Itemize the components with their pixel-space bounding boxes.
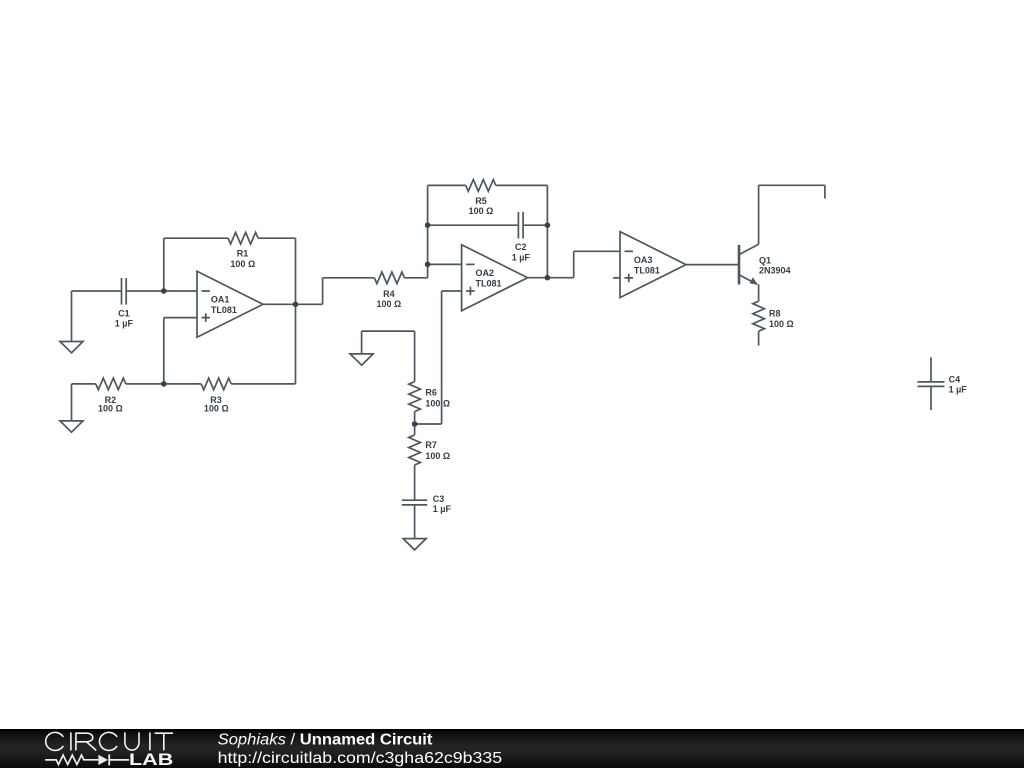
label R8 [769, 309, 794, 330]
wire feedback right vertical lower [295, 304, 297, 384]
wire C4 bottom stub [930, 387, 932, 410]
wire input to C1 [72, 290, 122, 292]
svg-text:OA2: OA2 [476, 268, 495, 278]
node F [545, 222, 551, 228]
svg-text:100 Ω: 100 Ω [425, 399, 450, 409]
wire C3 to ground [414, 506, 416, 539]
label OA3 [634, 255, 660, 276]
svg-text:100 Ω: 100 Ω [425, 451, 450, 461]
node G [545, 275, 551, 281]
wire C2 left lead [428, 224, 518, 226]
svg-text:http://circuitlab.com/c3gha62c: http://circuitlab.com/c3gha62c9b335 [218, 749, 503, 767]
op-amp U OA3 [620, 232, 686, 298]
label Q1 [759, 256, 791, 276]
svg-text:R4: R4 [383, 289, 395, 299]
capacitor C3 [402, 500, 427, 505]
wire R2 left down to ground [71, 384, 73, 421]
label OA1 [211, 294, 237, 315]
label R7 [425, 440, 450, 461]
ground G1 [60, 342, 83, 353]
wire collector top horizontal [759, 184, 825, 186]
wire ground branch top [362, 330, 415, 332]
wire loop left vertical [427, 185, 429, 264]
label R2 [98, 395, 123, 414]
svg-text:TL081: TL081 [211, 305, 237, 315]
wire Q1 collector up [758, 185, 760, 244]
wire ground branch down [361, 331, 363, 354]
svg-text:R8: R8 [769, 309, 781, 319]
capacitor C1 [122, 278, 127, 305]
node D [425, 222, 431, 228]
svg-text:R6: R6 [425, 388, 437, 398]
svg-text:100 Ω: 100 Ω [230, 259, 255, 269]
svg-text:R1: R1 [237, 249, 249, 259]
label R1 [230, 249, 255, 269]
wire OA3 output to Q1 base [686, 264, 739, 266]
capacitor C2 [518, 212, 523, 239]
label C4 [949, 375, 968, 395]
node A [161, 288, 167, 294]
wire C4 top stub [930, 357, 932, 381]
wire output step up [322, 278, 324, 305]
logo CIRCUIT letters [46, 732, 173, 750]
svg-text:100 Ω: 100 Ω [469, 206, 494, 216]
wire feedback left vertical [163, 238, 165, 291]
footer bar [0, 729, 1024, 768]
wire R4 up to minus node [427, 264, 429, 277]
ground G4 [403, 539, 426, 550]
wire R7 to C3 [414, 465, 416, 500]
wire output step up to OA3 [573, 251, 575, 277]
node B [161, 381, 167, 387]
op-amp U OA1 [197, 271, 263, 337]
svg-text:2N3904: 2N3904 [759, 266, 791, 276]
wire top right stub [824, 185, 826, 198]
wire OA2 output [528, 277, 574, 279]
wire plus down vertical [441, 291, 443, 424]
wire OA1 plus input [164, 317, 197, 319]
wire to R6 R7 node [415, 423, 442, 425]
wire R2 to node [126, 383, 164, 385]
wire feedback top left [164, 237, 228, 239]
label C1 [115, 309, 134, 329]
wire OA2 minus input [428, 263, 462, 265]
svg-text:1 µF: 1 µF [949, 385, 968, 395]
wire feedback right vertical upper [295, 238, 297, 304]
svg-text:TL081: TL081 [634, 265, 660, 275]
wire R6 bottom lead [414, 412, 416, 424]
wire loop right vertical [546, 185, 548, 277]
wire OA2 plus input [442, 290, 462, 292]
node E [425, 262, 431, 268]
label R6 [425, 388, 450, 409]
transistor Q1 [739, 244, 759, 284]
svg-text:C3: C3 [433, 494, 445, 504]
svg-text:1 µF: 1 µF [433, 504, 452, 514]
resistor R1 [228, 232, 258, 244]
op-amp U OA2 [462, 245, 528, 311]
svg-text:Sophiaks / Unnamed Circuit: Sophiaks / Unnamed Circuit [218, 732, 434, 748]
label R5 [469, 196, 494, 216]
label R4 [377, 289, 402, 309]
svg-text:100 Ω: 100 Ω [769, 319, 794, 329]
svg-text:C1: C1 [118, 309, 130, 319]
wire plus input down vertical [163, 318, 165, 384]
node H [412, 421, 418, 427]
svg-text:100 Ω: 100 Ω [98, 404, 123, 414]
wire R5 left lead [428, 184, 466, 186]
resistor R4 [374, 272, 404, 284]
svg-text:100 Ω: 100 Ω [204, 404, 229, 414]
wire R2 left lead [72, 383, 96, 385]
svg-text:LAB: LAB [129, 751, 173, 768]
svg-text:TL081: TL081 [476, 278, 502, 288]
svg-text:R7: R7 [425, 440, 437, 450]
wire R8 bottom lead [758, 331, 760, 345]
wire Q1 emitter down [758, 284, 760, 301]
wire R5 right lead [496, 184, 548, 186]
svg-text:OA1: OA1 [211, 294, 230, 304]
wire node to R3 [164, 383, 201, 385]
wire to OA3 minus input [574, 250, 620, 252]
svg-text:C4: C4 [949, 375, 961, 385]
wire R4 right lead [404, 277, 427, 279]
resistor R8 [753, 301, 765, 331]
svg-text:Q1: Q1 [759, 256, 771, 266]
wire input stub down to ground [71, 291, 73, 342]
svg-text:1 µF: 1 µF [115, 319, 134, 329]
wire C1 to OA1 minus input [127, 290, 197, 292]
label C2 [512, 242, 531, 262]
ground G2 [60, 421, 83, 432]
ground G3 [350, 354, 373, 365]
svg-text:100 Ω: 100 Ω [377, 299, 402, 309]
svg-text:OA3: OA3 [634, 255, 653, 265]
wire to R4 [323, 277, 375, 279]
resistor R2 [96, 378, 126, 390]
wire C2 right lead [524, 224, 548, 226]
svg-text:C2: C2 [515, 242, 527, 252]
wire OA1 output [263, 303, 323, 305]
wire OA3 plus stub [613, 277, 620, 279]
resistor R3 [201, 378, 231, 390]
wire R7 top lead [414, 424, 416, 435]
resistor R6 [409, 382, 421, 412]
logo resistor diode squiggle [45, 754, 129, 765]
label R3 [204, 395, 229, 414]
wire R1 to right vertical [258, 237, 295, 239]
node C [293, 302, 299, 308]
label C3 [433, 494, 452, 514]
capacitor C4 [918, 382, 945, 387]
wire R6 top lead [414, 331, 416, 382]
label OA2 [476, 268, 502, 289]
resistor R7 [409, 435, 421, 465]
svg-text:1 µF: 1 µF [512, 252, 531, 262]
wire R3 to feedback right vertical [231, 383, 295, 385]
resistor R5 [466, 180, 496, 192]
svg-text:R5: R5 [475, 196, 487, 206]
